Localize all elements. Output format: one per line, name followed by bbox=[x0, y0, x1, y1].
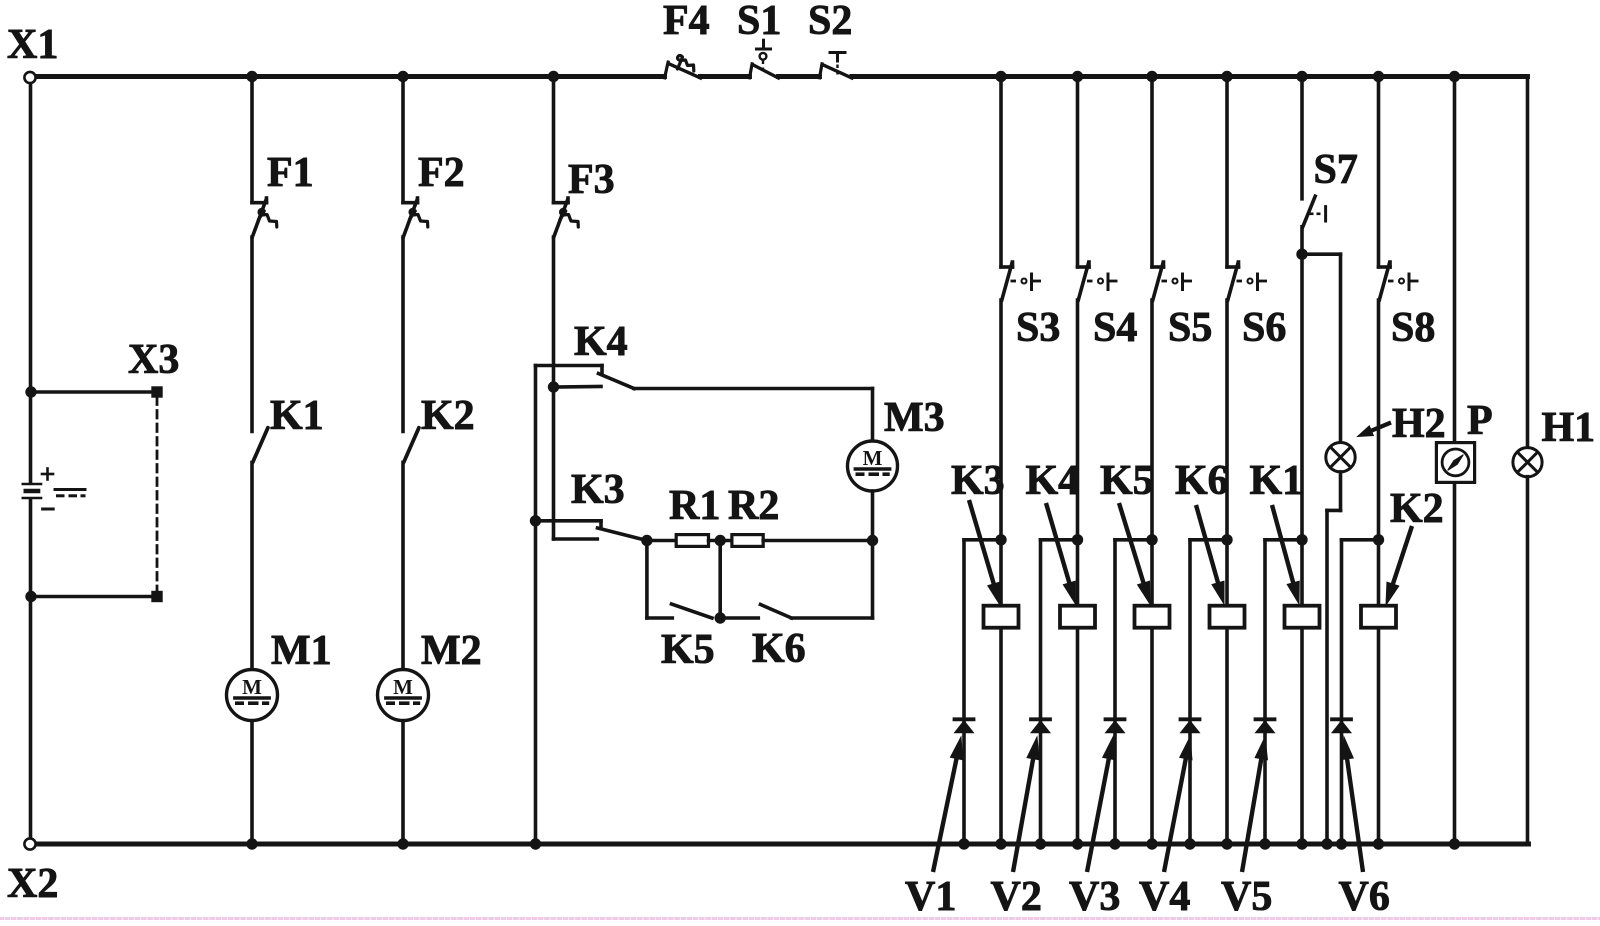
svg-text:R1: R1 bbox=[669, 483, 720, 529]
svg-text:V3: V3 bbox=[1069, 874, 1120, 920]
svg-text:S1: S1 bbox=[737, 0, 781, 44]
svg-text:K6: K6 bbox=[1175, 458, 1229, 504]
svg-text:K6: K6 bbox=[752, 626, 806, 672]
svg-text:K2: K2 bbox=[421, 393, 475, 439]
svg-text:K4: K4 bbox=[1026, 458, 1080, 504]
svg-text:S4: S4 bbox=[1093, 305, 1137, 351]
svg-text:S5: S5 bbox=[1168, 305, 1212, 351]
svg-text:M3: M3 bbox=[884, 395, 945, 441]
svg-text:K1: K1 bbox=[1250, 458, 1304, 504]
svg-text:K4: K4 bbox=[574, 319, 628, 365]
svg-text:X1: X1 bbox=[7, 22, 58, 68]
svg-text:S8: S8 bbox=[1391, 305, 1435, 351]
svg-text:F4: F4 bbox=[663, 0, 710, 44]
svg-text:M: M bbox=[863, 446, 883, 470]
svg-text:V5: V5 bbox=[1221, 874, 1272, 920]
svg-text:K5: K5 bbox=[1100, 458, 1154, 504]
svg-text:M2: M2 bbox=[421, 628, 482, 674]
svg-text:H2: H2 bbox=[1392, 401, 1446, 447]
svg-text:M: M bbox=[242, 675, 262, 699]
svg-text:K1: K1 bbox=[270, 393, 324, 439]
svg-text:S6: S6 bbox=[1242, 305, 1286, 351]
svg-text:M: M bbox=[393, 675, 413, 699]
svg-text:K3: K3 bbox=[951, 458, 1005, 504]
svg-text:R2: R2 bbox=[728, 483, 779, 529]
svg-text:M1: M1 bbox=[271, 628, 332, 674]
svg-text:S2: S2 bbox=[808, 0, 852, 44]
svg-text:V6: V6 bbox=[1339, 874, 1390, 920]
svg-text:V4: V4 bbox=[1139, 874, 1190, 920]
svg-text:X3: X3 bbox=[128, 337, 179, 383]
svg-text:S3: S3 bbox=[1016, 305, 1060, 351]
svg-text:K3: K3 bbox=[571, 467, 625, 513]
svg-text:K5: K5 bbox=[661, 627, 715, 673]
svg-text:V1: V1 bbox=[905, 874, 956, 920]
svg-text:K2: K2 bbox=[1390, 486, 1444, 532]
svg-text:V2: V2 bbox=[991, 874, 1042, 920]
svg-text:F1: F1 bbox=[267, 150, 314, 196]
svg-text:F3: F3 bbox=[568, 157, 615, 203]
svg-text:S7: S7 bbox=[1314, 147, 1358, 193]
svg-text:X2: X2 bbox=[7, 861, 58, 907]
svg-text:F2: F2 bbox=[418, 150, 465, 196]
svg-text:P: P bbox=[1467, 398, 1493, 444]
svg-text:H1: H1 bbox=[1542, 405, 1596, 451]
